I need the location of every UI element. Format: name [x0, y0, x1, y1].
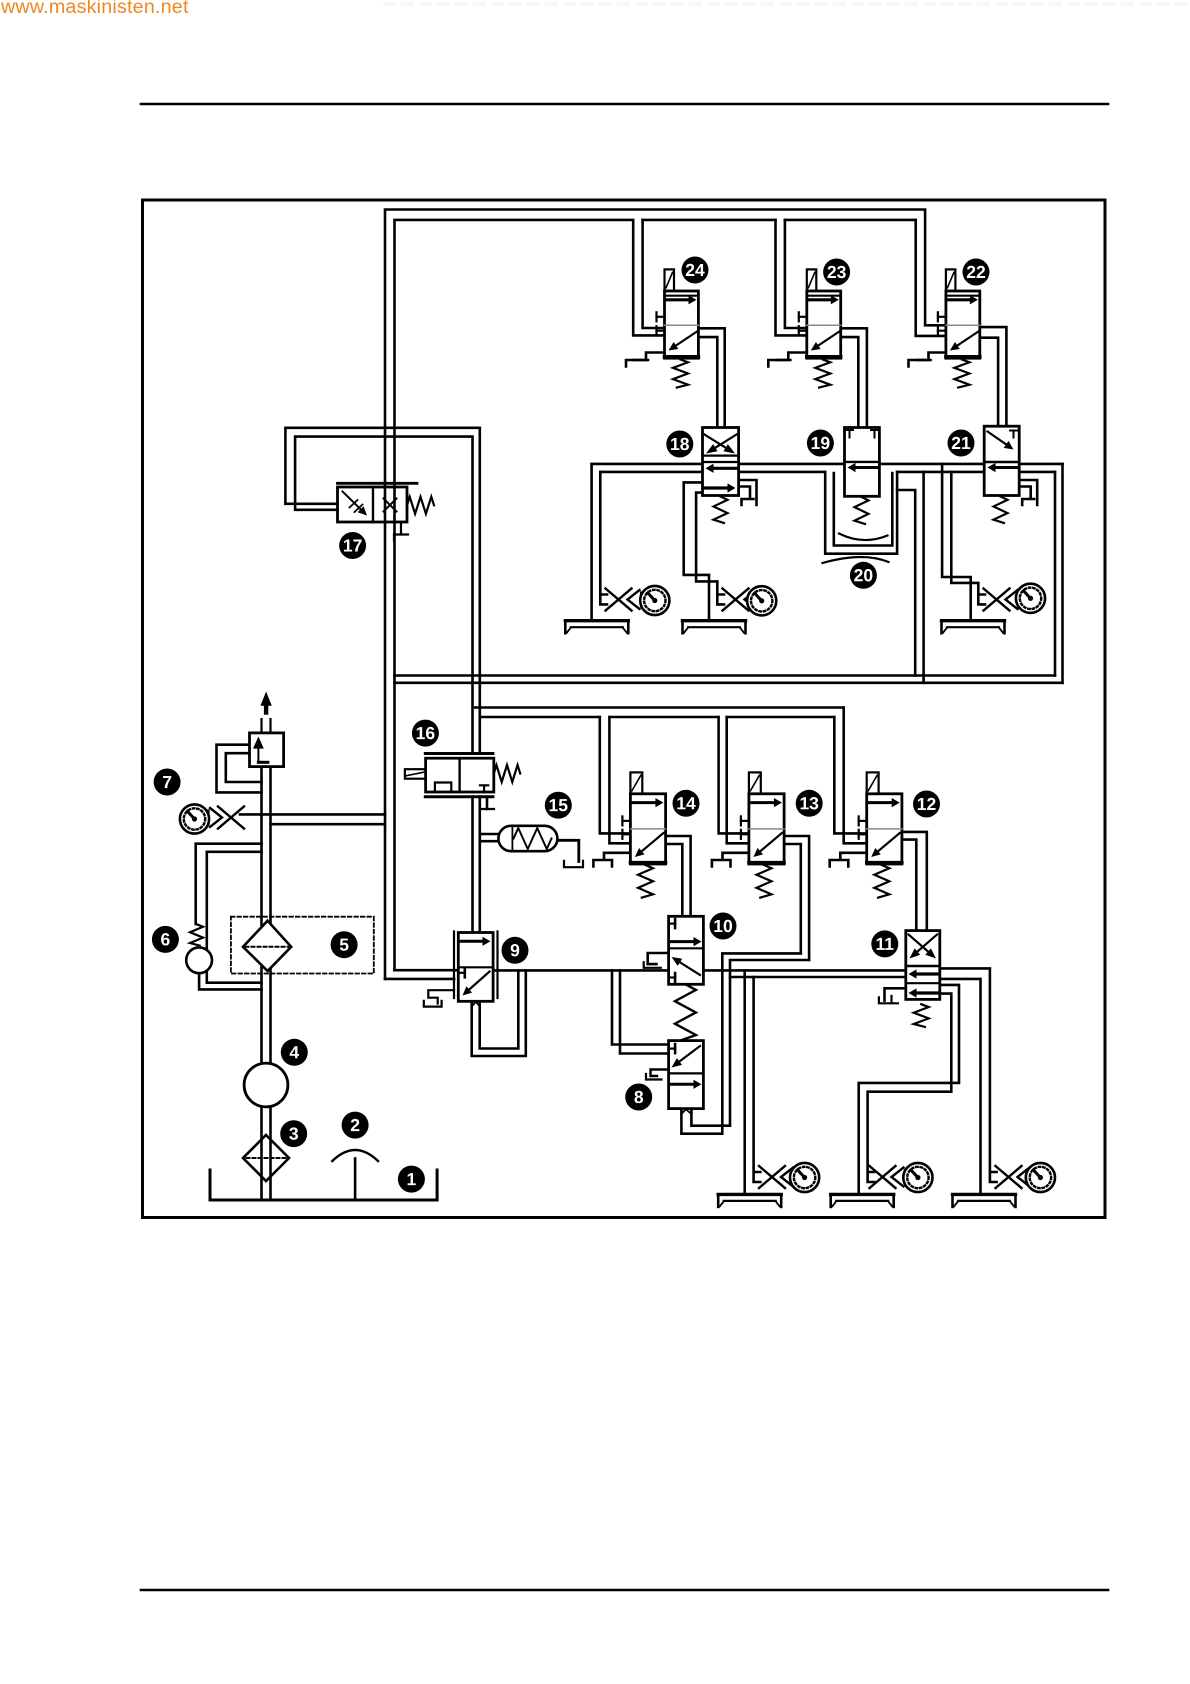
label 11: [871, 930, 898, 957]
drain of valve 12: [830, 853, 867, 867]
throttle test point B2: [870, 1166, 911, 1188]
wire manifold B segment 14-13: [609, 717, 749, 843]
wire main supply left vertical and top run to valve 22: [385, 210, 946, 979]
svg-text:24: 24: [685, 260, 705, 280]
label 10: [710, 913, 737, 940]
wire relief bypass loop: [217, 745, 262, 793]
label 21: [948, 430, 975, 457]
label 22: [963, 259, 990, 286]
tank 1 reservoir: [210, 1170, 437, 1200]
svg-text:1: 1: [407, 1169, 417, 1189]
tank A3: [942, 621, 1005, 634]
wire chamber outer around valve 19 spring: [825, 472, 897, 554]
label 8: [625, 1084, 652, 1111]
svg-text:11: 11: [876, 934, 895, 954]
label 2: [342, 1112, 369, 1139]
wire valve 16 to valve 9: [473, 797, 480, 933]
drain left of valve 11: [879, 988, 906, 1003]
suction strainer 2: [332, 1150, 378, 1200]
label 16: [412, 720, 439, 747]
wire pressure line to main riser and gauge 7: [240, 814, 385, 824]
svg-text:18: 18: [670, 434, 690, 454]
svg-text:22: 22: [966, 262, 986, 282]
relief valve 10: [669, 916, 704, 984]
spring between valves 10 and 8: [675, 984, 696, 1040]
wire drop to tank below 21: [942, 464, 985, 621]
wire valve 24 output to valve 18: [698, 328, 724, 427]
drain of valve 13: [712, 853, 749, 867]
ball of valve 6: [186, 947, 212, 973]
wire manifold A upper: [395, 674, 1056, 677]
solenoid valve 22: [938, 269, 980, 358]
tank B2: [831, 1194, 894, 1207]
wire valve 17 loop inner to valve 16: [295, 437, 472, 754]
svg-text:14: 14: [676, 793, 696, 813]
gauge A3: [1016, 584, 1045, 613]
wire relief valve to filter 5: [262, 767, 271, 925]
spring of valve 12: [874, 865, 889, 898]
label 4: [281, 1039, 308, 1066]
wire top run segment 24-23: [643, 220, 776, 328]
drain elbow right of valve 18: [739, 480, 757, 505]
wire valve 12 output to valve 11: [902, 832, 927, 931]
spring of valve 23: [815, 360, 830, 388]
svg-text:10: 10: [713, 916, 733, 936]
wire valve 13 output loop to valve 8 bottom port: [681, 953, 809, 1133]
label 14: [673, 790, 700, 817]
solenoid valve 24: [657, 269, 699, 358]
tank B1: [718, 1194, 781, 1207]
spring of valve 13: [757, 865, 772, 898]
spring of accumulator 15: [514, 828, 552, 849]
wire valve 18 drain loop to tank: [684, 482, 724, 620]
wire main line valve 10 to valve 11: [703, 969, 905, 972]
gauge A2: [747, 586, 776, 615]
drain of valve 9: [424, 990, 454, 1006]
wire 22 outer feed: [916, 220, 946, 336]
gauge B1: [790, 1163, 819, 1192]
drain of valve 24: [626, 353, 665, 367]
wire valve 11 lower outputs to bottom middle assembly: [859, 985, 959, 1194]
label 5: [331, 931, 358, 958]
wire manifold B segment 13-12: [727, 717, 867, 843]
gauge 7: [180, 804, 209, 833]
label 7: [154, 769, 181, 796]
spring of valve 14: [638, 865, 653, 898]
throttle test point A1: [606, 589, 647, 611]
spring of valve 21: [994, 497, 1008, 524]
spring of valve 24: [673, 360, 688, 388]
wire bypass loop of valve 6: [196, 844, 262, 983]
drain of valve 8: [646, 1070, 669, 1080]
label 19: [807, 430, 834, 457]
throttle test point A3: [984, 589, 1025, 611]
wire drop to bottom left assembly: [745, 970, 761, 1194]
wire inner top run to valve 24 outer feed: [395, 220, 665, 970]
diagram frame: [143, 200, 1106, 1218]
svg-text:19: 19: [811, 433, 831, 453]
wire branch to accumulator 15: [480, 834, 499, 841]
solenoid valve 23: [799, 269, 841, 358]
throttle test point B3: [996, 1166, 1037, 1188]
spring of valve 19: [855, 497, 869, 524]
tank A1: [565, 621, 628, 634]
solenoid valve 12: [859, 772, 902, 864]
main relief valve: [250, 733, 284, 767]
relief valve 8: [669, 1041, 704, 1109]
wire valve 14 output to valve 10: [666, 836, 691, 916]
pump 4: [244, 1063, 288, 1107]
shuttle valve 11: [906, 931, 940, 1000]
label 15: [545, 792, 572, 819]
wire valve 11 output right down to test point: [940, 968, 997, 1182]
dish curve in chamber: [839, 534, 888, 541]
label 1: [398, 1166, 425, 1193]
wire 23 outer feed: [776, 220, 807, 336]
spring of valve 17: [407, 497, 434, 514]
wire manifold A lower: [395, 681, 1063, 684]
wire valve 9 bottom loop to main line: [472, 970, 526, 1056]
sequence valve 9: [454, 932, 498, 1002]
solenoid valve 13: [741, 772, 784, 864]
wire filter 5 to pump 4: [262, 967, 271, 1064]
label 23: [823, 259, 850, 286]
gauge B2: [903, 1163, 932, 1192]
label 6: [152, 926, 179, 953]
wire row line lower 18-19-21: [600, 471, 1055, 474]
wire manifold B segment to valve 14 outer feed: [482, 717, 630, 833]
wire valve 6 return: [199, 973, 261, 989]
wire drop to tank left of 18: [592, 464, 607, 621]
drain elbow right of valve 21: [1019, 480, 1037, 505]
spring of valve 16: [494, 765, 520, 782]
decor: [385, 2, 1190, 6]
svg-text:13: 13: [799, 793, 819, 813]
wire valve 23 output to valve 19: [841, 328, 867, 427]
wire right risers to lower manifold: [1055, 464, 1063, 683]
throttle test point B1: [759, 1166, 800, 1188]
filter unit 5 enclosure: [231, 917, 374, 974]
drain right of accumulator 15: [557, 840, 583, 867]
svg-text:21: 21: [951, 433, 971, 453]
wire valve 22 output to valve 21: [980, 327, 1006, 426]
svg-text:17: 17: [343, 535, 362, 555]
wire valve 13 output down: [784, 836, 809, 960]
filter 3: [243, 1135, 289, 1181]
drain of valve 10: [644, 953, 669, 968]
drain of valve 14: [593, 853, 630, 867]
reducing valve 18: [703, 428, 739, 496]
reducing valve 21: [984, 426, 1019, 495]
svg-text:6: 6: [161, 929, 171, 949]
svg-text:15: 15: [549, 795, 569, 815]
svg-text:12: 12: [917, 794, 937, 814]
svg-text:2: 2: [350, 1115, 360, 1135]
svg-text:7: 7: [162, 772, 172, 792]
wire chamber inner around valve 19 spring: [834, 473, 893, 546]
label 20: [850, 562, 877, 589]
pilot valve 17: [338, 483, 418, 522]
wire valve 11 output right down to tank: [940, 979, 981, 1194]
drain of valve 16: [480, 797, 494, 809]
accumulator 15 shell: [498, 826, 557, 851]
reducing valve 19: [845, 428, 880, 497]
spring of valve 22: [954, 360, 969, 388]
tank A2: [683, 621, 746, 634]
svg-text:8: 8: [634, 1087, 644, 1107]
wire pump line into valve 9: [385, 970, 458, 979]
spring of valve 11: [914, 1004, 929, 1027]
label 17: [339, 532, 366, 559]
wire vent to relief valve: [262, 719, 271, 733]
svg-text:4: 4: [289, 1042, 299, 1062]
label 12: [913, 791, 940, 818]
wire manifold B upper to valve 12 inner feed: [475, 708, 867, 844]
label 18: [666, 431, 693, 458]
gauge A1: [640, 586, 669, 615]
drain of valve 22: [909, 353, 948, 367]
gauge B3: [1026, 1163, 1055, 1192]
svg-text:3: 3: [289, 1124, 299, 1144]
drain of valve 17: [394, 522, 408, 541]
top rule: [141, 103, 1108, 106]
label 3: [280, 1120, 307, 1147]
wire main line valve 9 to valve 10: [493, 969, 668, 972]
label 13: [796, 790, 823, 817]
spring of valve 18: [714, 497, 728, 524]
vent arrow above relief valve: [260, 692, 271, 715]
spring of valve 6: [190, 924, 203, 946]
label 9: [502, 937, 529, 964]
wire valve 17 loop outer to valve 16: [285, 428, 479, 754]
svg-text:9: 9: [510, 940, 520, 960]
throttle test point of gauge 7: [204, 807, 245, 829]
wire branch to valve 8 left ports: [612, 970, 669, 1053]
throttle test point A2: [723, 589, 764, 611]
drain of valve 23: [768, 353, 807, 367]
svg-text:16: 16: [416, 723, 436, 743]
wire top run segment 23-22: [785, 220, 916, 328]
solenoid valve 14: [622, 772, 665, 864]
wire pump 4 through filter 3 to tank: [262, 1107, 271, 1201]
wire drop from 19 chamber to lower manifold: [897, 472, 924, 683]
filter 5: [243, 921, 291, 971]
svg-text:5: 5: [339, 935, 349, 955]
tank B3: [953, 1194, 1016, 1207]
wire second line to valve 11: [730, 976, 906, 979]
wire row line upper 18-19-21: [592, 463, 1063, 466]
svg-text:23: 23: [827, 262, 847, 282]
svg-text:20: 20: [854, 565, 874, 585]
hose 20 arc: [823, 557, 889, 563]
unload valve 16: [405, 754, 494, 797]
label 24: [682, 257, 709, 284]
bottom rule: [141, 1589, 1108, 1592]
